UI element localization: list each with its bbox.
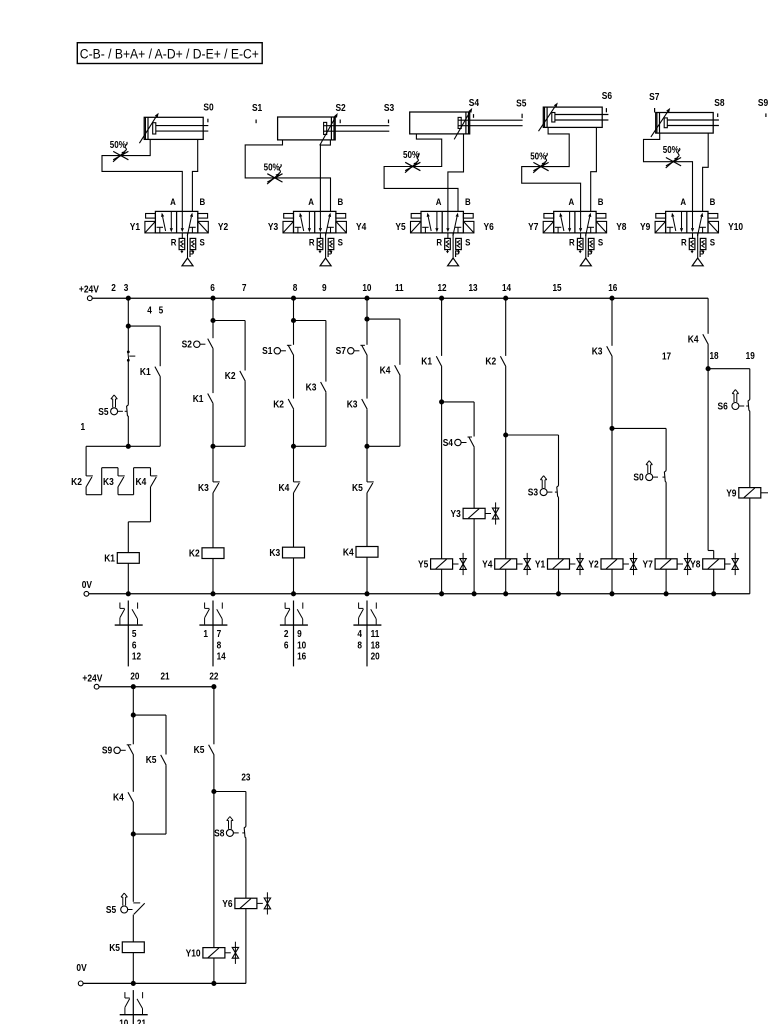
svg-text:S4: S4 (443, 438, 454, 449)
svg-text:K5: K5 (352, 483, 363, 494)
svg-text:S3: S3 (384, 103, 395, 114)
svg-text:22: 22 (209, 671, 218, 682)
svg-text:16: 16 (608, 283, 617, 294)
svg-text:Y6: Y6 (222, 899, 233, 910)
svg-text:K3: K3 (592, 347, 603, 358)
svg-text:11: 11 (395, 283, 404, 294)
svg-text:20: 20 (371, 652, 380, 663)
svg-text:10: 10 (362, 283, 371, 294)
svg-text:0V: 0V (76, 963, 86, 974)
svg-text:S: S (200, 237, 206, 248)
svg-text:K1: K1 (140, 367, 151, 378)
svg-text:S9: S9 (102, 746, 113, 757)
svg-text:R: R (436, 237, 442, 248)
svg-text:11: 11 (371, 629, 380, 640)
svg-text:R: R (171, 237, 177, 248)
svg-text:P: P (587, 249, 593, 260)
svg-text:8: 8 (293, 283, 298, 294)
svg-text:19: 19 (746, 351, 755, 362)
svg-text:12: 12 (132, 652, 141, 663)
svg-text:A: A (436, 197, 442, 208)
svg-text:B: B (710, 197, 716, 208)
svg-text:50%: 50% (663, 145, 679, 156)
svg-text:Y8: Y8 (690, 560, 701, 571)
svg-text:S5: S5 (106, 905, 117, 916)
svg-text:S9: S9 (758, 98, 768, 109)
svg-text:K4: K4 (343, 548, 354, 559)
svg-text:B: B (338, 197, 344, 208)
svg-text:Y3: Y3 (451, 509, 462, 520)
svg-text:3: 3 (124, 283, 129, 294)
svg-text:14: 14 (502, 283, 511, 294)
svg-text:50%: 50% (530, 152, 546, 163)
svg-text:8: 8 (357, 640, 362, 651)
svg-text:R: R (681, 237, 687, 248)
svg-text:2: 2 (284, 629, 289, 640)
svg-text:Y1: Y1 (130, 222, 141, 233)
svg-text:Y4: Y4 (356, 222, 367, 233)
svg-text:S0: S0 (633, 473, 644, 484)
svg-text:Y5: Y5 (418, 560, 429, 571)
svg-text:K1: K1 (104, 554, 115, 565)
svg-text:S2: S2 (335, 103, 346, 114)
svg-text:B: B (598, 197, 604, 208)
svg-text:S8: S8 (214, 828, 225, 839)
svg-text:6: 6 (210, 283, 215, 294)
svg-text:18: 18 (371, 640, 380, 651)
svg-text:+24V: +24V (82, 674, 102, 685)
svg-text:K2: K2 (273, 399, 284, 410)
svg-text:10: 10 (297, 640, 306, 651)
svg-text:12: 12 (437, 283, 446, 294)
svg-text:21: 21 (137, 1019, 146, 1024)
svg-text:Y9: Y9 (640, 222, 651, 233)
svg-text:K5: K5 (146, 755, 157, 766)
svg-text:K4: K4 (380, 366, 391, 377)
svg-text:8: 8 (217, 640, 222, 651)
svg-text:Y1: Y1 (535, 560, 546, 571)
svg-text:A: A (308, 197, 314, 208)
svg-text:A: A (170, 197, 176, 208)
svg-text:S6: S6 (602, 91, 613, 102)
svg-text:13: 13 (468, 283, 477, 294)
svg-text:S: S (710, 237, 716, 248)
svg-text:K3: K3 (347, 399, 358, 410)
svg-text:C-B- / B+A+ / A-D+ / D-E+ / E-: C-B- / B+A+ / A-D+ / D-E+ / E-C+ (80, 47, 259, 63)
svg-text:Y5: Y5 (395, 222, 406, 233)
svg-text:4: 4 (357, 629, 362, 640)
svg-text:Y6: Y6 (484, 222, 495, 233)
svg-text:5: 5 (159, 306, 164, 317)
svg-text:R: R (309, 237, 315, 248)
svg-text:S7: S7 (649, 92, 660, 103)
svg-text:K5: K5 (194, 745, 205, 756)
svg-text:K4: K4 (113, 793, 124, 804)
svg-text:S8: S8 (714, 98, 725, 109)
svg-text:A: A (568, 197, 574, 208)
svg-text:+24V: +24V (79, 285, 99, 296)
svg-text:Y3: Y3 (268, 222, 279, 233)
svg-text:15: 15 (552, 283, 561, 294)
svg-text:1: 1 (81, 422, 86, 433)
svg-text:Y8: Y8 (616, 222, 627, 233)
svg-text:B: B (199, 197, 205, 208)
svg-text:9: 9 (297, 629, 302, 640)
svg-text:20: 20 (130, 671, 139, 682)
svg-text:K2: K2 (485, 357, 496, 368)
svg-text:23: 23 (241, 773, 250, 784)
svg-text:B: B (465, 197, 471, 208)
svg-text:K3: K3 (103, 477, 114, 488)
svg-text:A: A (680, 197, 686, 208)
svg-text:S5: S5 (98, 407, 109, 418)
svg-text:Y9: Y9 (726, 488, 737, 499)
svg-text:S: S (465, 237, 471, 248)
svg-text:6: 6 (284, 640, 289, 651)
svg-text:5: 5 (132, 629, 137, 640)
svg-text:S: S (598, 237, 604, 248)
svg-text:Y10: Y10 (728, 222, 743, 233)
svg-text:K4: K4 (136, 477, 147, 488)
svg-text:Y2: Y2 (218, 222, 229, 233)
svg-text:S3: S3 (528, 488, 539, 499)
svg-text:21: 21 (160, 671, 169, 682)
svg-text:10: 10 (119, 1019, 128, 1024)
svg-text:6: 6 (132, 640, 137, 651)
svg-text:Y7: Y7 (643, 560, 654, 571)
svg-text:K4: K4 (688, 335, 699, 346)
svg-text:K3: K3 (269, 548, 280, 559)
svg-text:P: P (189, 249, 195, 260)
svg-text:S7: S7 (336, 346, 347, 357)
svg-text:50%: 50% (264, 162, 280, 173)
svg-text:50%: 50% (110, 140, 126, 151)
svg-text:S5: S5 (516, 99, 527, 110)
svg-text:P: P (327, 249, 333, 260)
svg-text:7: 7 (242, 283, 247, 294)
svg-text:Y10: Y10 (186, 948, 201, 959)
svg-text:18: 18 (709, 351, 718, 362)
svg-text:S6: S6 (718, 402, 729, 413)
svg-text:Y4: Y4 (482, 560, 493, 571)
svg-text:16: 16 (297, 652, 306, 663)
svg-text:S2: S2 (182, 340, 193, 351)
svg-text:P: P (454, 249, 460, 260)
svg-text:K2: K2 (189, 549, 200, 560)
svg-text:P: P (699, 249, 705, 260)
svg-text:K2: K2 (225, 371, 236, 382)
svg-text:S0: S0 (203, 103, 214, 114)
svg-text:K4: K4 (279, 483, 290, 494)
svg-text:50%: 50% (403, 150, 419, 161)
svg-text:Y7: Y7 (528, 222, 539, 233)
svg-text:S4: S4 (469, 98, 480, 109)
svg-text:K5: K5 (109, 943, 120, 954)
svg-text:2: 2 (111, 283, 116, 294)
svg-text:7: 7 (217, 629, 222, 640)
svg-text:K1: K1 (193, 394, 204, 405)
svg-text:K1: K1 (421, 357, 432, 368)
svg-text:S: S (338, 237, 344, 248)
svg-text:Y2: Y2 (588, 560, 599, 571)
svg-text:K3: K3 (198, 483, 209, 494)
svg-text:17: 17 (662, 351, 671, 362)
svg-text:14: 14 (217, 652, 226, 663)
svg-text:S1: S1 (262, 346, 273, 357)
svg-text:4: 4 (147, 306, 152, 317)
svg-text:0V: 0V (82, 580, 92, 591)
svg-text:K2: K2 (71, 477, 82, 488)
svg-text:9: 9 (322, 283, 327, 294)
svg-text:R: R (569, 237, 575, 248)
svg-text:S1: S1 (252, 103, 263, 114)
svg-text:K3: K3 (306, 382, 317, 393)
svg-text:1: 1 (203, 629, 208, 640)
